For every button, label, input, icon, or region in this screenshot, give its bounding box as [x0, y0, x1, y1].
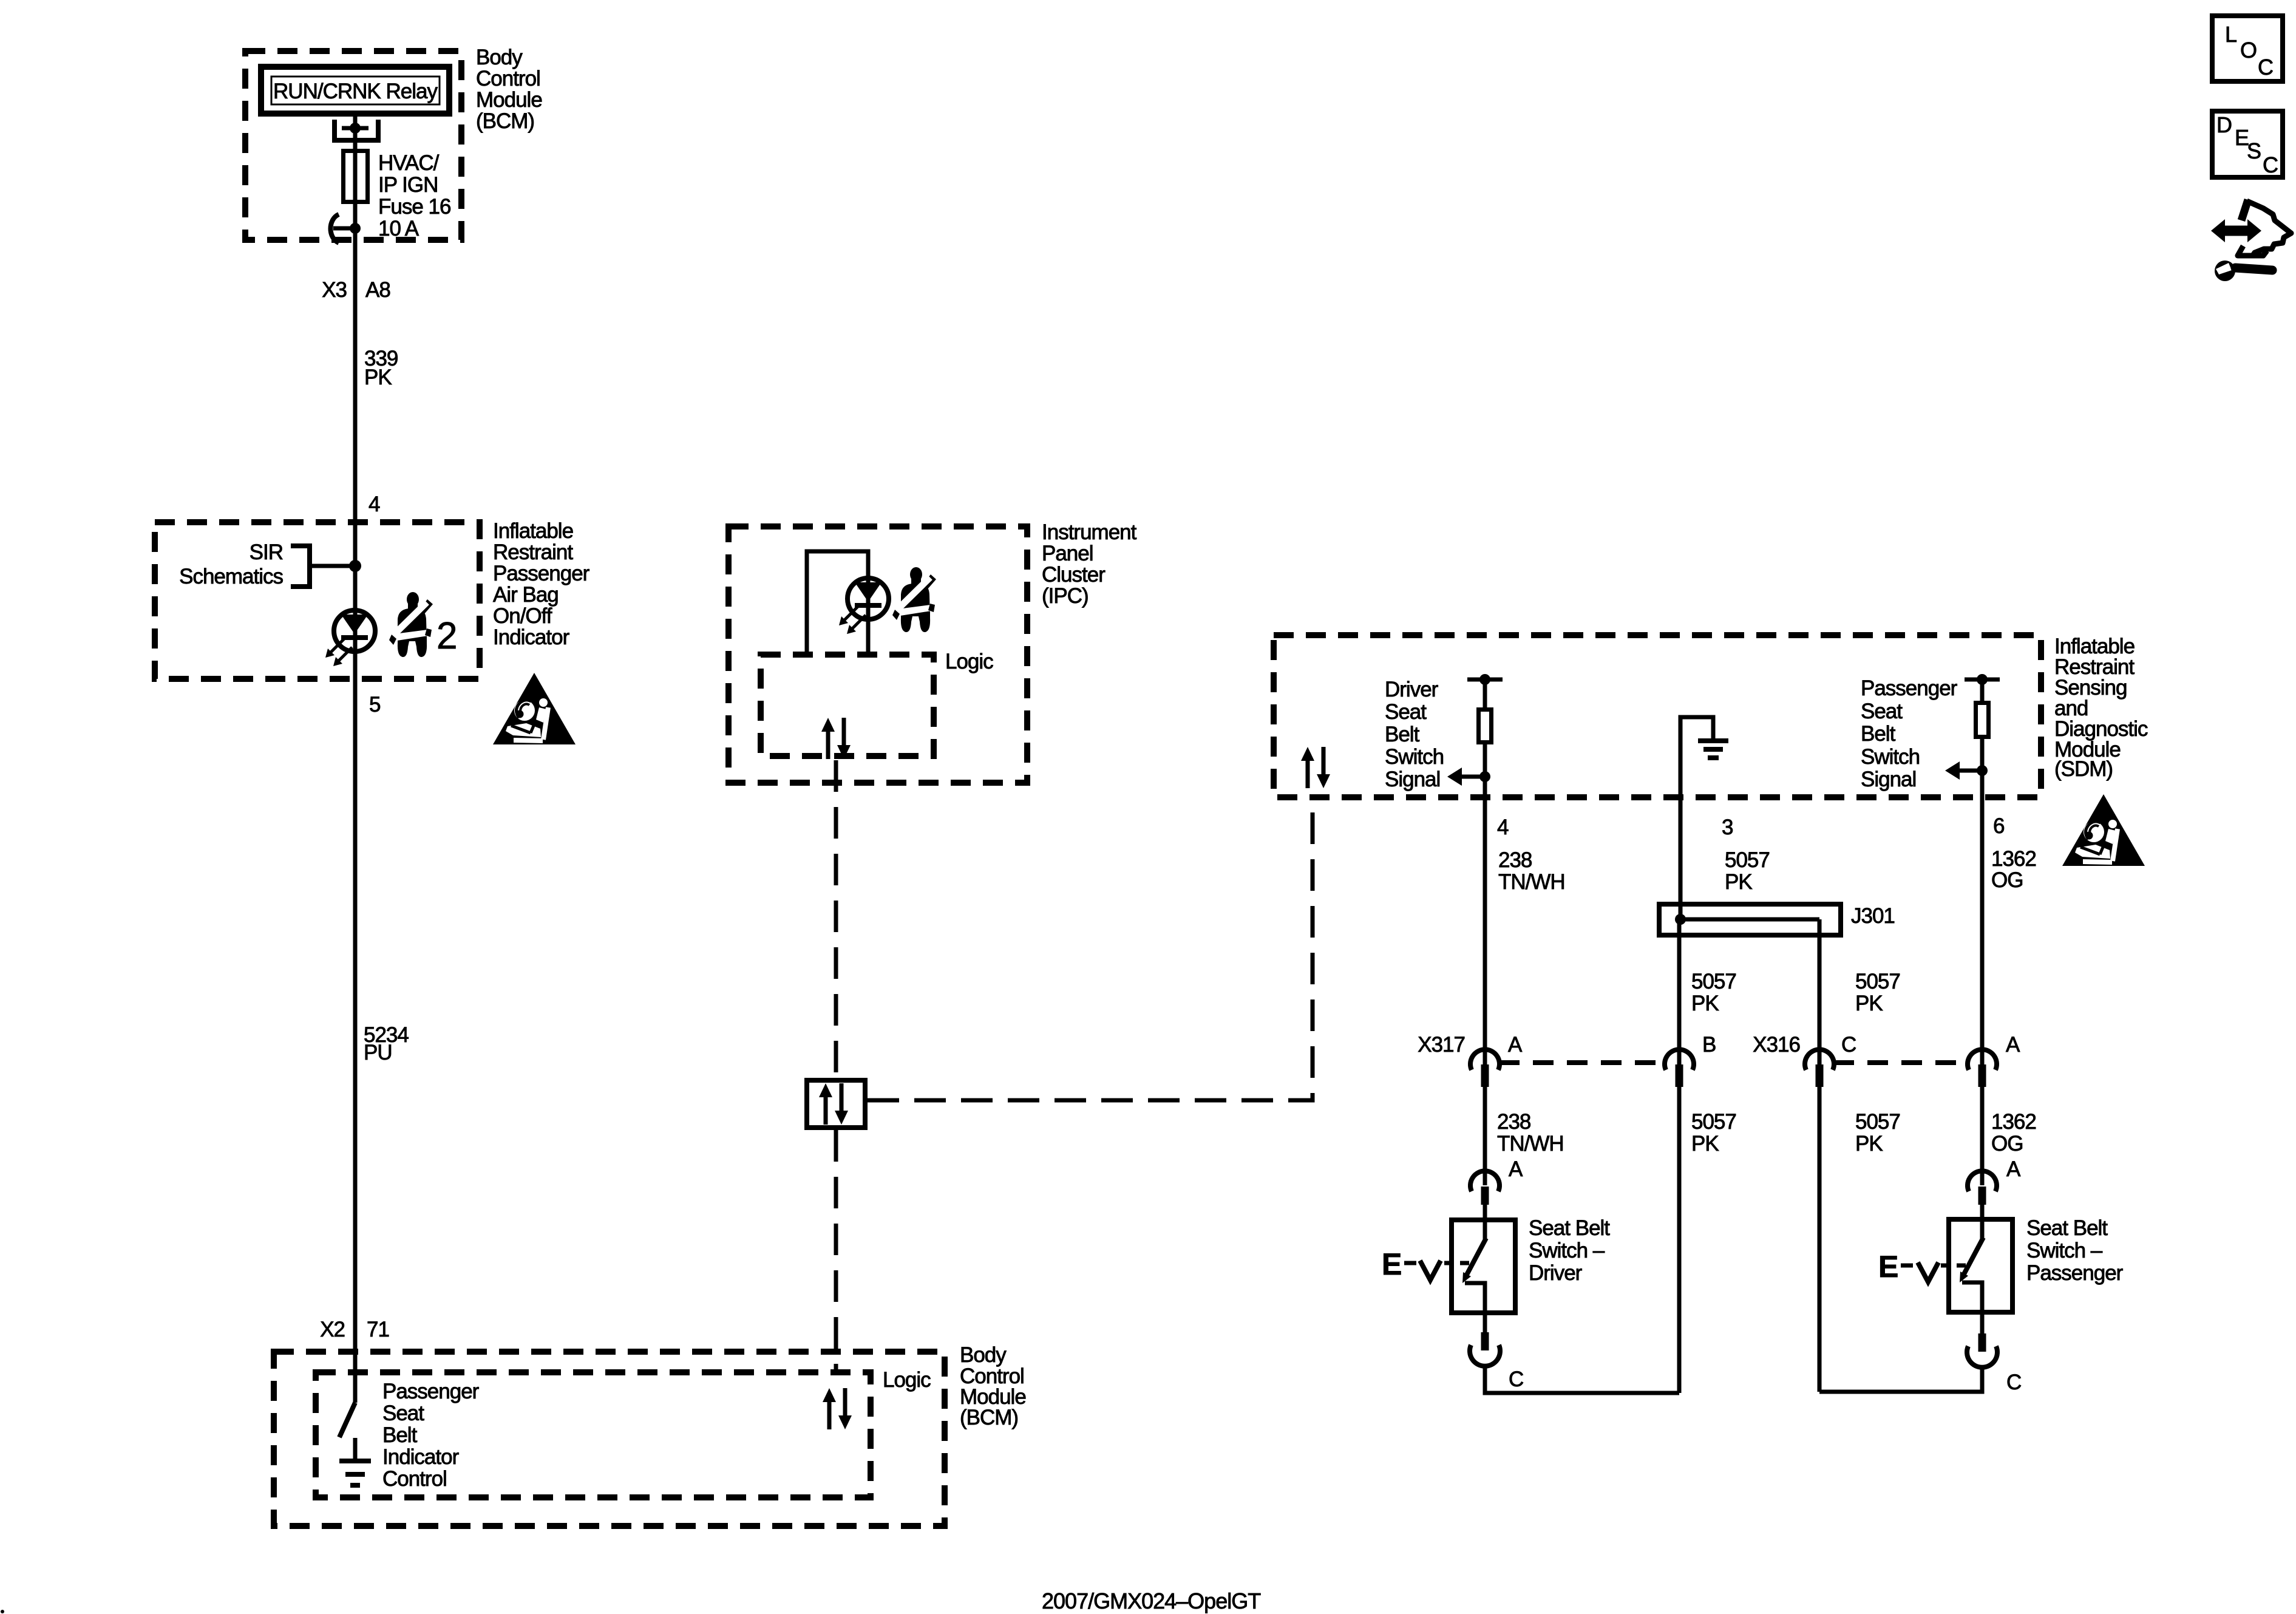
svg-text:Signal: Signal: [1861, 768, 1916, 791]
svg-text:J301: J301: [1851, 904, 1895, 928]
svg-text:Inflatable: Inflatable: [493, 519, 573, 543]
svg-text:Switch: Switch: [1861, 745, 1920, 769]
svg-text:Signal: Signal: [1385, 768, 1440, 791]
svg-text:Seat: Seat: [382, 1401, 424, 1425]
svg-text:PK: PK: [1691, 1132, 1719, 1156]
svg-text:RUN/CRNK Relay: RUN/CRNK Relay: [273, 80, 438, 103]
svg-text:5057: 5057: [1691, 970, 1736, 993]
svg-text:Air Bag: Air Bag: [493, 583, 559, 607]
svg-text:A: A: [2006, 1157, 2021, 1181]
svg-text:SIR: SIR: [250, 540, 283, 564]
svg-text:PK: PK: [1855, 992, 1883, 1015]
svg-text:Logic: Logic: [883, 1368, 931, 1392]
svg-text:TN/WH: TN/WH: [1497, 1132, 1564, 1156]
svg-text:PK: PK: [1691, 992, 1719, 1015]
svg-text:Indicator: Indicator: [493, 625, 570, 649]
svg-text:E: E: [1878, 1250, 1898, 1284]
svg-text:Seat Belt: Seat Belt: [1529, 1216, 1610, 1240]
svg-text:B: B: [1702, 1033, 1716, 1057]
svg-text:E: E: [1382, 1247, 1402, 1281]
svg-text:Indicator: Indicator: [382, 1445, 460, 1469]
svg-text:Seat Belt: Seat Belt: [2026, 1216, 2108, 1240]
svg-text:Switch –: Switch –: [1529, 1239, 1605, 1262]
svg-text:Belt: Belt: [382, 1423, 418, 1447]
svg-text:(BCM): (BCM): [960, 1406, 1018, 1429]
svg-text:Body: Body: [476, 46, 523, 69]
svg-text:5057: 5057: [1855, 1110, 1900, 1134]
svg-text:Seat: Seat: [1385, 700, 1427, 724]
svg-text:C: C: [2263, 152, 2278, 177]
svg-text:C: C: [1841, 1033, 1856, 1057]
svg-text:Switch –: Switch –: [2026, 1239, 2103, 1262]
svg-text:Passenger: Passenger: [1861, 676, 1958, 700]
svg-text:4: 4: [369, 492, 380, 516]
svg-text:1362: 1362: [1991, 847, 2036, 871]
svg-text:A: A: [1508, 1033, 1523, 1057]
svg-text:C: C: [2258, 55, 2273, 80]
svg-text:TN/WH: TN/WH: [1498, 870, 1565, 894]
svg-text:C: C: [2006, 1371, 2021, 1394]
svg-text:4: 4: [1497, 816, 1509, 839]
svg-text:5: 5: [369, 693, 380, 717]
svg-text:5057: 5057: [1725, 848, 1770, 872]
svg-text:PU: PU: [364, 1041, 392, 1064]
svg-text:X316: X316: [1753, 1033, 1800, 1057]
svg-text:Restraint: Restraint: [493, 540, 573, 564]
svg-text:Switch: Switch: [1385, 745, 1444, 769]
svg-text:2: 2: [436, 615, 457, 657]
svg-text:Driver: Driver: [1385, 678, 1439, 701]
svg-text:Passenger: Passenger: [382, 1380, 480, 1403]
svg-text:238: 238: [1497, 1110, 1530, 1134]
svg-text:(IPC): (IPC): [1042, 584, 1089, 608]
svg-text:Panel: Panel: [1042, 542, 1093, 565]
svg-text:3: 3: [1722, 816, 1733, 839]
svg-text:A: A: [2006, 1033, 2020, 1057]
svg-text:IP IGN: IP IGN: [378, 173, 438, 197]
svg-text:Belt: Belt: [1861, 722, 1896, 746]
svg-text:Passenger: Passenger: [2026, 1261, 2124, 1285]
svg-text:X317: X317: [1418, 1033, 1465, 1057]
svg-text:X2: X2: [320, 1318, 345, 1341]
svg-text:S: S: [2247, 138, 2261, 163]
svg-text:Control: Control: [382, 1467, 447, 1491]
svg-text:(BCM): (BCM): [476, 109, 534, 133]
svg-text:HVAC/: HVAC/: [378, 151, 440, 175]
svg-text:Instrument: Instrument: [1042, 520, 1137, 544]
svg-text:Seat: Seat: [1861, 700, 1903, 723]
svg-text:Belt: Belt: [1385, 723, 1420, 746]
svg-text:Cluster: Cluster: [1042, 563, 1106, 587]
svg-text:X3: X3: [322, 278, 347, 302]
svg-text:On/Off: On/Off: [493, 604, 552, 628]
svg-text:OG: OG: [1991, 1132, 2023, 1156]
svg-text:Passenger: Passenger: [493, 562, 590, 585]
svg-text:Control: Control: [476, 67, 540, 90]
svg-text:(SDM): (SDM): [2054, 757, 2113, 781]
svg-text:2007/GMX024–OpelGT: 2007/GMX024–OpelGT: [1042, 1588, 1261, 1613]
svg-text:6: 6: [1993, 814, 2004, 838]
svg-text:5057: 5057: [1855, 970, 1900, 993]
svg-text:PK: PK: [364, 366, 392, 389]
svg-text:Driver: Driver: [1529, 1261, 1583, 1285]
svg-text:Logic: Logic: [945, 650, 993, 673]
svg-text:C: C: [1509, 1367, 1523, 1391]
svg-text:O: O: [2240, 38, 2257, 63]
svg-text:71: 71: [367, 1318, 389, 1341]
svg-text:1362: 1362: [1991, 1110, 2036, 1134]
svg-text:OG: OG: [1991, 868, 2023, 892]
svg-text:238: 238: [1498, 848, 1532, 872]
svg-text:L: L: [2225, 22, 2237, 47]
svg-text:A: A: [1509, 1157, 1523, 1181]
svg-text:Schematics: Schematics: [179, 565, 283, 588]
svg-text:PK: PK: [1855, 1132, 1883, 1156]
svg-text:A8: A8: [365, 278, 390, 302]
svg-text:Body: Body: [960, 1343, 1007, 1367]
svg-text:PK: PK: [1725, 870, 1752, 894]
svg-text:D: D: [2216, 112, 2232, 137]
svg-text:Module: Module: [476, 88, 542, 112]
svg-text:10 A: 10 A: [378, 217, 419, 240]
svg-text:Fuse 16: Fuse 16: [378, 195, 450, 219]
svg-text:5057: 5057: [1691, 1110, 1736, 1134]
